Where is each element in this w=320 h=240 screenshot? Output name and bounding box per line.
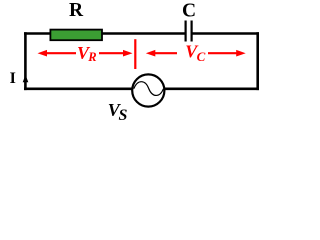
voltage arrow VC left part <box>146 50 177 57</box>
svg-text:S: S <box>119 107 128 124</box>
wire bottom-left segment <box>24 88 132 91</box>
voltage arrow VR left part <box>38 50 77 57</box>
source VS sine wave <box>134 82 164 96</box>
capacitor C plates <box>186 21 192 42</box>
node divider red bar <box>134 39 136 69</box>
svg-text:C: C <box>197 49 206 64</box>
svg-text:R: R <box>87 50 96 64</box>
wire top-left segment <box>24 32 51 35</box>
svg-text:C: C <box>182 0 196 21</box>
voltage arrow VR right part <box>99 50 133 57</box>
resistor R <box>50 30 102 41</box>
wire right vertical <box>256 32 259 90</box>
wire left vertical <box>24 32 27 90</box>
svg-text:I: I <box>10 70 16 87</box>
wire top-right segment <box>192 32 259 35</box>
current arrow I on left wire <box>23 75 29 82</box>
svg-text:R: R <box>69 0 84 21</box>
wire top-middle segment <box>102 32 185 35</box>
voltage arrow VC right part <box>208 50 246 57</box>
wire bottom-right segment <box>165 88 259 91</box>
source VS circle <box>132 74 164 106</box>
